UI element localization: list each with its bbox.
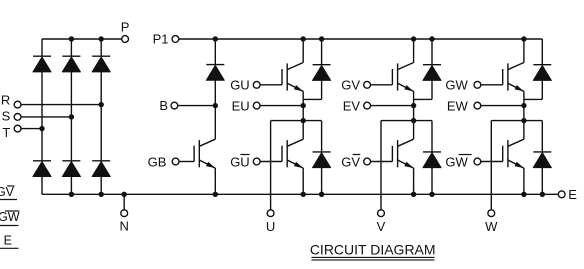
node R junction (99, 102, 104, 107)
wire U lower collector (302, 121, 304, 140)
svg-text:S: S (2, 109, 11, 124)
wire U output drop (270, 121, 272, 210)
wire V upper collector (413, 39, 415, 63)
node EW junction (521, 103, 526, 108)
wire V upper emitter (413, 91, 415, 120)
svg-text:R: R (1, 92, 10, 107)
svg-text:P1: P1 (153, 32, 169, 47)
svg-text:W: W (485, 219, 498, 234)
diode rectifier upper 3 (92, 55, 110, 57)
wire W upper collector (523, 39, 525, 63)
svg-text:P: P (121, 19, 130, 34)
terminal T (14, 125, 21, 132)
terminal EU (253, 102, 260, 109)
svg-text:GB: GB (148, 154, 167, 169)
diode V lower freewheel (423, 151, 441, 153)
node N junction (122, 192, 127, 197)
wire W phase jog (491, 120, 542, 122)
wire W upper emitter (523, 91, 525, 120)
svg-text:B: B (159, 98, 168, 113)
node W lower diode rail junction (540, 192, 545, 197)
node W lower emitter rail junction (521, 192, 526, 197)
wire W lower diode drop (541, 121, 543, 152)
terminal P (122, 36, 129, 43)
node EU junction (301, 103, 306, 108)
diode rectifier upper 1 (33, 55, 51, 57)
wire U phase jog (271, 120, 322, 122)
wire S input (21, 116, 71, 118)
node rail junction leg3 (99, 192, 104, 197)
svg-text:GU: GU (230, 78, 250, 93)
wire V upper diode top (431, 39, 433, 65)
transistor GW-bar lower IGBT (502, 146, 504, 162)
wire U lower emitter (302, 168, 304, 194)
node W collector bus junction (521, 36, 526, 41)
terminal GB (172, 158, 179, 165)
diode rectifier lower 3 (92, 160, 110, 162)
transistor GB (193, 146, 195, 162)
wire W lower collector (523, 121, 525, 140)
node T junction (39, 126, 44, 131)
wire W upper diode bottom (541, 80, 543, 99)
terminal P1 (172, 36, 179, 43)
terminal GW-bar (474, 158, 481, 165)
svg-text:T: T (2, 125, 10, 140)
node brake bus junction (213, 36, 218, 41)
diode W lower freewheel (533, 151, 551, 153)
wire brake diode top (214, 39, 216, 65)
svg-text:E: E (568, 187, 577, 202)
diode V upper freewheel (423, 64, 441, 66)
wire U lower diode drop (321, 121, 323, 152)
svg-text:GV: GV (341, 154, 360, 169)
diode W upper freewheel (533, 64, 551, 66)
node U lower emitter rail junction (301, 192, 306, 197)
node V phase junction (411, 118, 416, 123)
node S junction (69, 114, 74, 119)
wire GV gate lead (371, 84, 393, 86)
wire inverter P bus (179, 38, 543, 40)
terminal R (14, 101, 21, 108)
wire W lower emitter (523, 168, 525, 194)
terminal GU-bar (253, 158, 260, 165)
terminal GU (253, 81, 260, 88)
svg-text:CIRCUIT DIAGRAM: CIRCUIT DIAGRAM (310, 242, 436, 258)
wire U upper emitter (302, 91, 304, 120)
wire B lead (178, 105, 216, 107)
wire W lower diode bottom (541, 168, 543, 195)
wire W upper diode top (541, 39, 543, 65)
wire V lower emitter (413, 168, 415, 194)
diode U upper freewheel (313, 64, 331, 66)
wire U lower diode bottom (321, 168, 323, 195)
svg-text:GU: GU (230, 154, 250, 169)
transistor GU upper IGBT (281, 69, 283, 85)
transistor GU-bar lower IGBT (281, 146, 283, 162)
node rectifier bus junction 2 (69, 36, 74, 41)
terminal S (14, 114, 21, 121)
terminal U output (267, 210, 274, 217)
node EV junction (411, 103, 416, 108)
transistor GV upper IGBT (391, 69, 393, 85)
wire brake diode to B node (214, 80, 216, 105)
svg-text:E: E (4, 233, 12, 247)
svg-text:N: N (120, 219, 129, 234)
terminal GV (364, 81, 371, 88)
terminal B (171, 102, 178, 109)
wire V lower diode bottom (431, 168, 433, 195)
wire U upper diode top (321, 39, 323, 65)
node U phase junction (301, 118, 306, 123)
transistor GW upper IGBT (502, 69, 504, 85)
diode U lower freewheel (313, 151, 331, 153)
node U upper diode bus junction (319, 36, 324, 41)
terminal V output (378, 210, 385, 217)
terminal EV (364, 102, 371, 109)
terminal N (121, 210, 128, 217)
wire EV lead (371, 105, 414, 107)
wire T input (21, 128, 42, 130)
wire V phase jog (381, 120, 432, 122)
wire W output drop (490, 121, 492, 210)
wire GU-bar gate lead (260, 161, 282, 163)
node V upper diode bus junction (429, 36, 434, 41)
node B junction (213, 103, 218, 108)
svg-text:GW: GW (445, 78, 468, 93)
diode rectifier lower 2 (62, 160, 80, 162)
wire V output drop (380, 121, 382, 210)
svg-text:GV: GV (341, 78, 360, 93)
svg-text:V: V (377, 219, 386, 234)
wire rectifier top bus (42, 38, 122, 40)
terminal EW (474, 102, 481, 109)
node V collector bus junction (411, 36, 416, 41)
wire GB emitter to rail (214, 168, 216, 194)
wire R input (21, 104, 101, 106)
terminal GW (474, 81, 481, 88)
wire GV-bar gate lead (371, 161, 393, 163)
transistor GV-bar lower IGBT (391, 146, 393, 162)
wire bottom N rail (42, 193, 558, 195)
wire U upper diode bottom (321, 80, 323, 99)
wire N stub (123, 194, 125, 210)
wire GW-bar gate lead (481, 161, 503, 163)
svg-text:EW: EW (447, 98, 469, 113)
wire V upper diode bottom (431, 80, 433, 99)
diode rectifier lower 1 (33, 160, 51, 162)
svg-text:EU: EU (232, 98, 250, 113)
terminal E (558, 191, 565, 198)
wire V lower collector (413, 121, 415, 140)
wire GU gate lead (260, 84, 282, 86)
wire rectifier leg 3 (100, 39, 102, 56)
svg-text:GV: GV (0, 185, 15, 199)
node rectifier bus junction 3 (99, 36, 104, 41)
terminal GV-bar (364, 158, 371, 165)
wire U upper collector (302, 39, 304, 63)
wire V lower diode drop (431, 121, 433, 152)
node rail junction leg2 (69, 192, 74, 197)
node U collector bus junction (301, 36, 306, 41)
wire rectifier leg 1 (41, 39, 43, 56)
svg-text:EV: EV (343, 98, 361, 113)
wire GW gate lead (481, 84, 503, 86)
svg-text:GW: GW (0, 210, 20, 224)
svg-text:U: U (266, 219, 275, 234)
wire brake collector (214, 106, 216, 140)
diode rectifier upper 2 (62, 55, 80, 57)
wire EU lead (260, 105, 303, 107)
node W phase junction (521, 118, 526, 123)
node V lower diode rail junction (429, 192, 434, 197)
wire GB gate lead (179, 161, 194, 163)
node GB emitter junction (213, 192, 218, 197)
node U lower diode rail junction (319, 192, 324, 197)
diode brake D7 (206, 64, 224, 66)
wire rectifier leg 2 (70, 39, 72, 56)
svg-text:GW: GW (445, 154, 468, 169)
node V lower emitter rail junction (411, 192, 416, 197)
wire EW lead (481, 105, 524, 107)
terminal W output (488, 210, 495, 217)
